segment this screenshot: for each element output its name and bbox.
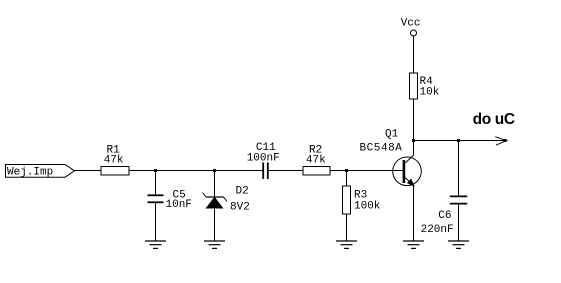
output arrow do uC xyxy=(473,111,515,145)
svg-text:100nF: 100nF xyxy=(247,153,280,165)
junction node C5 tap xyxy=(154,169,157,172)
svg-text:100k: 100k xyxy=(354,201,381,213)
svg-text:Wej.Imp: Wej.Imp xyxy=(7,167,53,179)
wire Q1 collector up xyxy=(413,141,415,156)
svg-text:BC548A: BC548A xyxy=(360,143,403,155)
wire Q1 emitter down xyxy=(413,186,415,241)
svg-text:C6: C6 xyxy=(438,210,451,222)
capacitor C5 xyxy=(148,171,192,242)
ground C6 xyxy=(448,241,469,248)
resistor R3 xyxy=(343,171,381,242)
junction node R3 tap xyxy=(345,169,348,172)
svg-text:47k: 47k xyxy=(306,155,326,167)
net flag Wej.Imp xyxy=(6,165,75,179)
svg-text:220nF: 220nF xyxy=(421,224,454,236)
Vcc terminal xyxy=(401,18,421,74)
wire input to R1 xyxy=(75,170,102,172)
svg-text:47k: 47k xyxy=(104,155,124,167)
capacitor C11 xyxy=(247,142,280,179)
resistor R2 xyxy=(303,145,330,176)
svg-text:Vcc: Vcc xyxy=(401,18,421,30)
ground C5 xyxy=(145,241,166,248)
wire R1 to C11 xyxy=(129,170,263,172)
svg-text:Q1: Q1 xyxy=(385,129,399,141)
resistor R1 xyxy=(101,145,129,176)
wire C11 to R2 xyxy=(269,170,303,172)
wire R2 to Q1 base xyxy=(330,170,403,172)
wire collector rail to output xyxy=(414,140,508,142)
ground Q1 emitter xyxy=(403,241,424,248)
junction node C6 tap xyxy=(457,139,460,142)
transistor Q1 xyxy=(360,129,422,186)
svg-text:do uC: do uC xyxy=(473,111,515,128)
svg-text:D2: D2 xyxy=(236,186,249,198)
svg-text:10nF: 10nF xyxy=(166,199,192,211)
resistor R4 xyxy=(410,73,440,141)
svg-text:8V2: 8V2 xyxy=(230,202,250,214)
ground D2 xyxy=(204,241,225,248)
zener diode D2 xyxy=(203,171,250,242)
svg-text:10k: 10k xyxy=(420,87,440,99)
ground R3 xyxy=(336,241,357,248)
junction node collector xyxy=(412,139,415,142)
capacitor C6 xyxy=(421,141,468,242)
junction node D2 tap xyxy=(213,169,216,172)
